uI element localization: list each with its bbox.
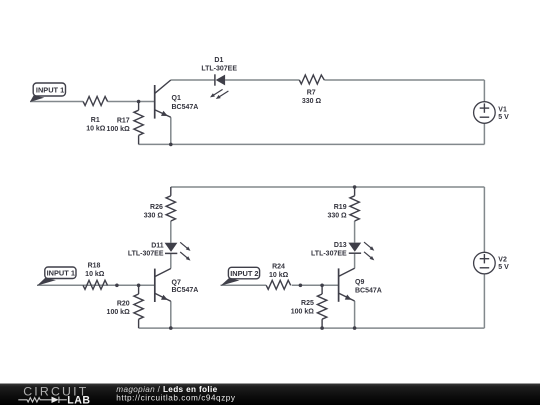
svg-text:R17: R17: [117, 118, 130, 125]
svg-text:V2: V2: [498, 256, 507, 263]
svg-text:http://circuitlab.com/c94qzpy: http://circuitlab.com/c94qzpy: [116, 393, 236, 402]
svg-text:R20: R20: [117, 301, 130, 308]
svg-text:INPUT 1: INPUT 1: [47, 269, 75, 278]
svg-text:R18: R18: [88, 262, 101, 269]
svg-text:10 kΩ: 10 kΩ: [85, 271, 105, 278]
svg-text:INPUT 2: INPUT 2: [230, 269, 258, 278]
svg-text:5 V: 5 V: [498, 114, 509, 121]
svg-text:10 kΩ: 10 kΩ: [86, 126, 106, 133]
svg-text:R7: R7: [307, 89, 316, 96]
svg-text:330 Ω: 330 Ω: [327, 212, 347, 219]
svg-text:LTL-307EE: LTL-307EE: [311, 250, 347, 257]
svg-text:LTL-307EE: LTL-307EE: [201, 65, 237, 72]
svg-text:BC547A: BC547A: [172, 104, 199, 111]
svg-text:330 Ω: 330 Ω: [144, 212, 164, 219]
svg-text:V1: V1: [498, 106, 507, 113]
svg-text:R1: R1: [91, 117, 100, 124]
svg-text:D11: D11: [151, 242, 164, 249]
svg-text:LTL-307EE: LTL-307EE: [128, 251, 164, 258]
svg-text:Q7: Q7: [172, 279, 181, 286]
svg-text:330 Ω: 330 Ω: [302, 98, 322, 105]
svg-text:100 kΩ: 100 kΩ: [107, 126, 131, 133]
svg-text:100 kΩ: 100 kΩ: [291, 309, 315, 316]
svg-text:R26: R26: [150, 204, 163, 211]
svg-text:R24: R24: [272, 264, 285, 271]
svg-text:D1: D1: [214, 57, 223, 64]
svg-text:R25: R25: [301, 300, 314, 307]
svg-text:Q1: Q1: [172, 95, 181, 102]
svg-text:LAB: LAB: [67, 395, 90, 405]
svg-text:BC547A: BC547A: [355, 287, 382, 294]
svg-text:10 kΩ: 10 kΩ: [269, 272, 289, 279]
svg-text:INPUT 1: INPUT 1: [36, 85, 64, 94]
svg-text:5 V: 5 V: [498, 264, 509, 271]
svg-text:100 kΩ: 100 kΩ: [107, 309, 131, 316]
svg-text:D13: D13: [334, 242, 347, 249]
svg-text:Q9: Q9: [355, 279, 364, 286]
svg-text:R19: R19: [334, 204, 347, 211]
svg-text:BC547A: BC547A: [172, 287, 199, 294]
